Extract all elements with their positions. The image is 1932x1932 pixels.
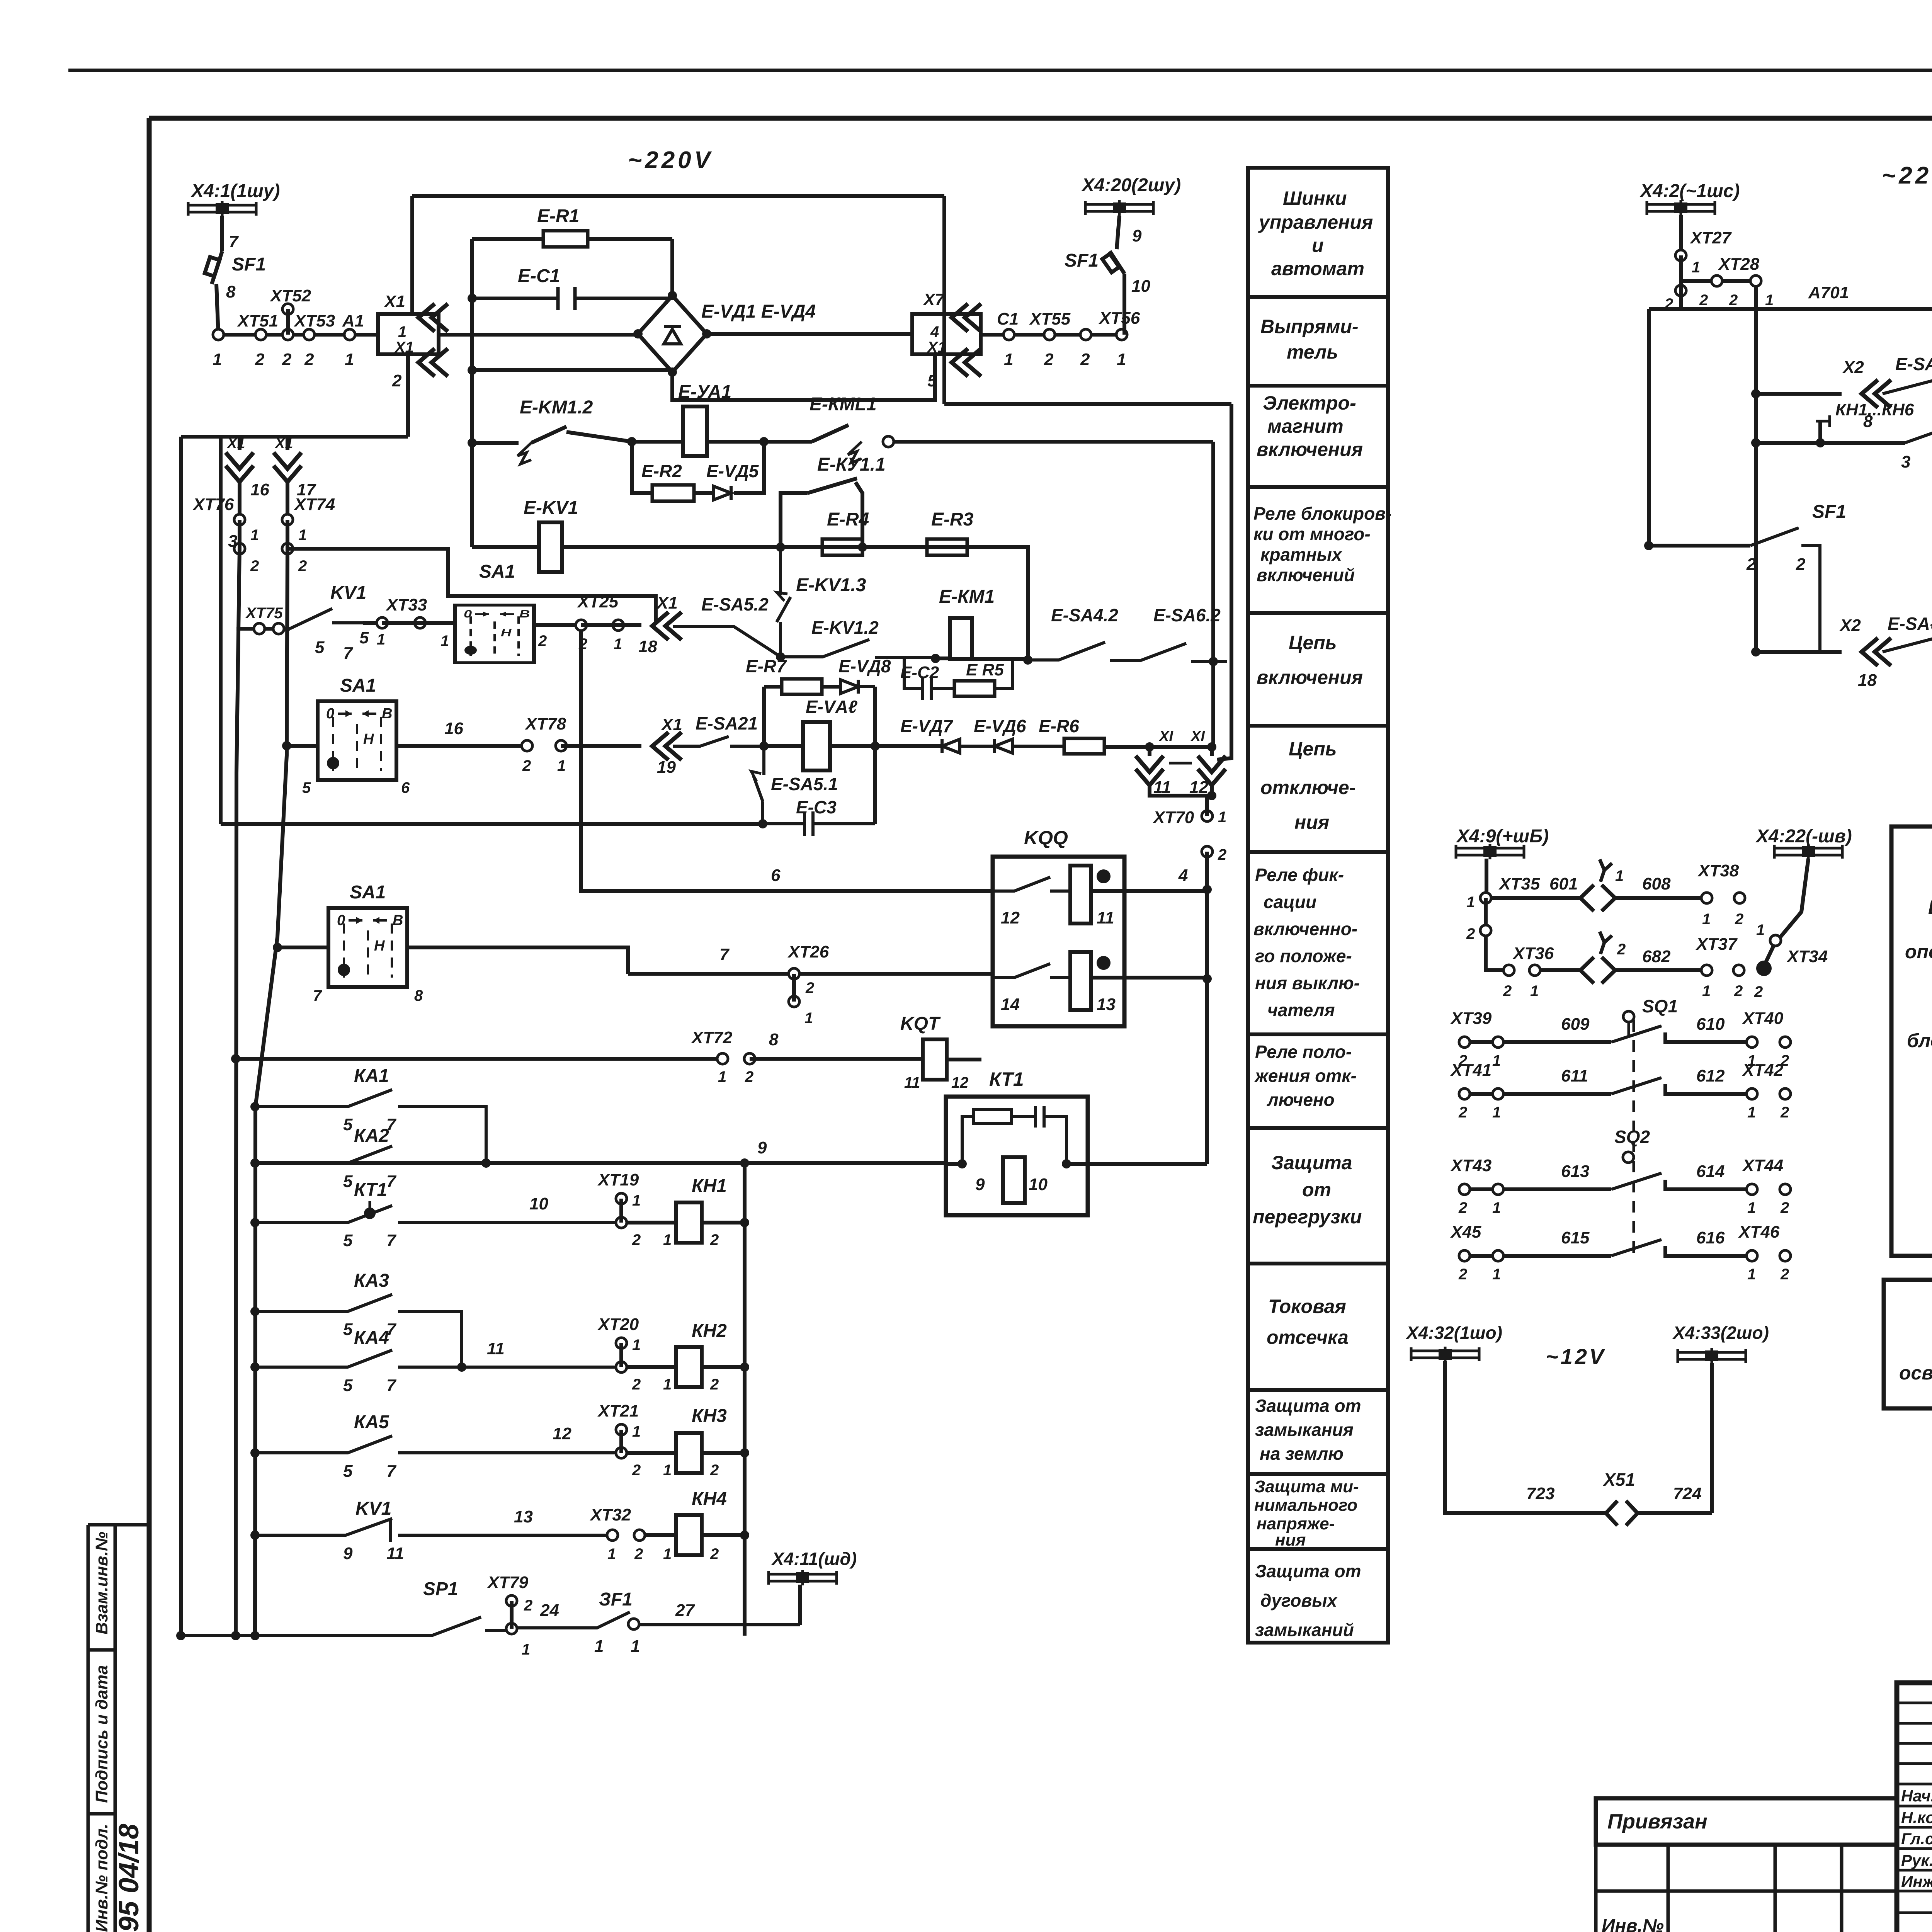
svg-text:ХТ75: ХТ75 <box>245 605 283 622</box>
SQ linkage dashed <box>1633 1020 1635 1256</box>
wire 682 <box>1615 968 1701 972</box>
svg-text:перегрузки: перегрузки <box>1253 1206 1362 1228</box>
svg-text:ЗF1: ЗF1 <box>599 1589 633 1610</box>
svg-text:4: 4 <box>1178 866 1188 885</box>
svg-text:E-КУ1.1: E-КУ1.1 <box>817 454 886 475</box>
svg-text:609: 609 <box>1561 1015 1590 1034</box>
terminal XT72 <box>717 1053 728 1064</box>
svg-text:~220 V: ~220 V <box>1882 162 1932 189</box>
terminal XT51 <box>213 329 224 340</box>
svg-text:А1: А1 <box>342 311 364 330</box>
terminal XT56 <box>1116 329 1127 340</box>
svg-text:612: 612 <box>1696 1066 1725 1085</box>
svg-text:Шинки: Шинки <box>1283 187 1347 209</box>
relay coil KQT <box>923 1039 947 1080</box>
relay coil KH2 <box>626 1365 745 1369</box>
wire SA1-2 to XT78 <box>396 744 527 748</box>
relay coil KH3 <box>626 1451 745 1455</box>
svg-text:Реле поло-: Реле поло- <box>1255 1042 1352 1062</box>
svg-text:7: 7 <box>386 1462 397 1481</box>
svg-text:ния выклю-: ния выклю- <box>1255 973 1360 993</box>
left margin column boxes <box>88 1525 150 1932</box>
wire XT74 feed to chevron18 <box>287 549 656 622</box>
svg-text:SF1: SF1 <box>1812 502 1846 522</box>
wire 6 vertical from XT25 <box>581 631 993 891</box>
connector X1 chevron out <box>418 349 448 376</box>
svg-text:ХТ51: ХТ51 <box>236 311 278 330</box>
svg-text:ХТ52: ХТ52 <box>269 286 311 305</box>
wire 12V loop <box>1445 1361 1712 1513</box>
svg-text:SA1: SA1 <box>350 882 386 903</box>
svg-text:610: 610 <box>1696 1015 1725 1034</box>
svg-text:E-УА1: E-УА1 <box>678 382 731 402</box>
terminal XT34 <box>1770 935 1781 946</box>
svg-text:E-C3: E-C3 <box>796 797 837 817</box>
svg-text:отключе-: отключе- <box>1260 777 1355 798</box>
svg-text:12: 12 <box>951 1074 969 1091</box>
svg-text:1: 1 <box>594 1637 604 1656</box>
svg-text:10: 10 <box>1029 1175 1048 1194</box>
svg-text:7: 7 <box>719 945 730 964</box>
terminal XT37 <box>1701 965 1712 976</box>
wire XT56 up to SF1 <box>1122 274 1126 335</box>
svg-text:отсечка: отсечка <box>1267 1327 1349 1348</box>
svg-text:Инв.№ подл.: Инв.№ подл. <box>92 1824 111 1932</box>
row XT43 613 SQ2 614 XT44 <box>1464 1180 1747 1189</box>
resistor E-R1 <box>543 231 588 247</box>
breaker SF1 second <box>1110 251 1124 274</box>
svg-text:E-R3: E-R3 <box>931 509 974 530</box>
wire to X4:11 <box>798 1585 802 1625</box>
resistor E-R3 <box>927 539 967 555</box>
svg-text:1: 1 <box>1765 292 1774 309</box>
contact KA1 <box>250 1102 260 1111</box>
svg-text:КА4: КА4 <box>354 1328 389 1348</box>
svg-text:от: от <box>1302 1179 1331 1201</box>
svg-text:КН2: КН2 <box>692 1321 727 1341</box>
diode E-VД8 <box>840 680 875 694</box>
svg-text:ХТ20: ХТ20 <box>597 1315 639 1334</box>
relay coil KH4 <box>645 1533 745 1537</box>
wire row1 right junction <box>1209 657 1218 666</box>
contact KA2 <box>250 1158 260 1168</box>
svg-text:7: 7 <box>386 1376 397 1395</box>
svg-text:А701: А701 <box>1808 283 1849 302</box>
wire X1 box bottom drop <box>181 354 408 437</box>
svg-text:замыканий: замыканий <box>1255 1620 1354 1640</box>
wire XT26 row <box>628 972 993 976</box>
svg-text:Защита от: Защита от <box>1255 1396 1361 1416</box>
contact KH1-KH6 <box>1905 425 1932 443</box>
svg-text:ХТ79: ХТ79 <box>486 1573 529 1592</box>
row XT39 609 SQ1 610 XT40 <box>1464 1032 1747 1042</box>
svg-text:2: 2 <box>1617 941 1626 958</box>
svg-text:2: 2 <box>524 1597 532 1614</box>
resistor E-R2 <box>652 485 694 501</box>
bypass loop E-KY1.1 <box>781 482 862 547</box>
terminal bar X4:33 <box>1678 1348 1746 1364</box>
connector chevron X2 left <box>1862 380 1891 408</box>
svg-text:Привязан: Привязан <box>1607 1810 1708 1833</box>
svg-text:E-VД1 E-VД4: E-VД1 E-VД4 <box>701 301 816 322</box>
svg-text:Х1: Х1 <box>394 339 414 356</box>
svg-text:E-КМ1: E-КМ1 <box>939 587 995 607</box>
svg-text:Реле блокиров-: Реле блокиров- <box>1253 503 1391 524</box>
svg-text:E-SA4.2: E-SA4.2 <box>1051 605 1118 625</box>
svg-text:замыкания: замыкания <box>1255 1420 1354 1440</box>
svg-text:1: 1 <box>1756 922 1765 939</box>
svg-text:2: 2 <box>632 1376 641 1393</box>
svg-text:управления: управления <box>1258 211 1373 233</box>
svg-text:X4:11(шд): X4:11(шд) <box>771 1549 857 1569</box>
svg-text:сации: сации <box>1264 892 1316 912</box>
svg-text:1: 1 <box>377 631 385 648</box>
svg-text:Инж: Инж <box>1901 1872 1932 1891</box>
svg-text:16: 16 <box>444 719 463 738</box>
wire XT27 to rail <box>1649 291 1681 546</box>
svg-text:1: 1 <box>1747 1199 1756 1216</box>
svg-text:9: 9 <box>975 1175 985 1194</box>
wire left long vertical <box>179 437 183 1636</box>
svg-text:включения: включения <box>1257 667 1363 688</box>
svg-text:3: 3 <box>1901 452 1910 471</box>
svg-text:автомат: автомат <box>1271 258 1364 279</box>
svg-text:1: 1 <box>522 1641 530 1658</box>
wire R6 to chevron pair <box>1104 745 1212 749</box>
svg-text:12: 12 <box>553 1424 571 1443</box>
svg-text:1: 1 <box>1615 867 1624 884</box>
svg-text:1: 1 <box>804 1010 813 1027</box>
svg-text:615: 615 <box>1561 1228 1590 1247</box>
wire SA1 to XT25 <box>534 623 581 627</box>
svg-text:Нач.отд.: Нач.отд. <box>1901 1787 1932 1805</box>
left attachment box Привязан <box>1596 1798 1897 1845</box>
svg-text:2: 2 <box>1458 1199 1467 1216</box>
wire right bus of ladder <box>743 1163 747 1636</box>
wire vertical to KV1 row <box>472 545 539 549</box>
svg-text:2: 2 <box>255 350 265 369</box>
connector X1 chevron in <box>418 304 448 332</box>
svg-text:27: 27 <box>675 1601 695 1620</box>
svg-text:1: 1 <box>345 350 354 369</box>
svg-text:1: 1 <box>631 1637 640 1656</box>
connector X1 upper box <box>378 314 439 354</box>
svg-text:9: 9 <box>1132 226 1142 245</box>
svg-text:жения отк-: жения отк- <box>1254 1066 1357 1086</box>
svg-text:18: 18 <box>1858 671 1877 690</box>
svg-text:E-KV1: E-KV1 <box>524 498 578 518</box>
svg-text:1: 1 <box>1492 1104 1501 1121</box>
svg-text:2: 2 <box>745 1068 753 1085</box>
wire to coil <box>632 440 683 444</box>
svg-text:1: 1 <box>1692 259 1700 276</box>
contact open terminal <box>883 436 894 447</box>
capacitor E-C1 <box>472 287 672 310</box>
svg-text:E-VД6: E-VД6 <box>974 716 1026 736</box>
parallel branch R2 VD5 <box>632 442 764 493</box>
svg-text:18: 18 <box>638 637 657 656</box>
connector Y2 <box>1580 957 1615 983</box>
svg-text:нимального: нимального <box>1254 1496 1357 1515</box>
svg-text:E-VАℓ: E-VАℓ <box>806 697 857 717</box>
svg-text:8: 8 <box>226 282 236 301</box>
svg-text:7: 7 <box>386 1231 397 1250</box>
svg-text:ХТ27: ХТ27 <box>1689 228 1732 247</box>
wire to KML1 <box>764 440 812 444</box>
KQQ contact 14 <box>993 964 1070 978</box>
svg-text:5: 5 <box>343 1115 353 1134</box>
svg-text:5: 5 <box>343 1172 353 1191</box>
svg-text:X4:32(1шо): X4:32(1шо) <box>1405 1323 1502 1343</box>
snubber loop left vertical <box>762 687 766 746</box>
svg-text:Х1: Х1 <box>383 292 405 311</box>
svg-text:магнит: магнит <box>1267 415 1344 437</box>
svg-text:ХТ46: ХТ46 <box>1738 1223 1780 1242</box>
svg-text:E R5: E R5 <box>966 660 1004 679</box>
wire XT72 KQT row <box>236 1057 723 1061</box>
wire A701 row <box>1649 307 1932 311</box>
KT1 coil <box>1003 1157 1025 1203</box>
diode E-VД6 <box>995 739 1064 753</box>
svg-text:КА2: КА2 <box>354 1126 389 1146</box>
contact KV1 <box>290 609 363 629</box>
KQQ coil 13 <box>1070 952 1091 1010</box>
svg-text:E-R2: E-R2 <box>641 461 682 481</box>
svg-text:SР1: SР1 <box>423 1579 458 1599</box>
wire rail to KML row <box>944 404 1231 760</box>
svg-text:ХТ28: ХТ28 <box>1718 255 1760 274</box>
svg-text:1: 1 <box>1218 809 1226 826</box>
svg-text:13: 13 <box>514 1507 533 1526</box>
svg-text:С1: С1 <box>997 310 1019 328</box>
contact SP1 <box>176 1631 185 1640</box>
svg-text:Цепь: Цепь <box>1289 738 1337 760</box>
svg-text:ХТ21: ХТ21 <box>597 1401 639 1420</box>
svg-text:ния: ния <box>1275 1531 1306 1549</box>
svg-text:611: 611 <box>1561 1066 1588 1085</box>
wire bridge to connector <box>707 332 912 336</box>
svg-text:613: 613 <box>1561 1162 1589 1181</box>
resistor E-R6 <box>1064 738 1104 754</box>
svg-text:11: 11 <box>904 1074 920 1091</box>
wire to XT33 <box>363 621 382 625</box>
svg-text:KV1: KV1 <box>330 583 366 603</box>
wire SA1-3 exit <box>407 947 628 974</box>
svg-text:1: 1 <box>1702 983 1711 1000</box>
svg-text:2: 2 <box>632 1231 641 1248</box>
svg-text:ХТ37: ХТ37 <box>1695 935 1738 954</box>
junction <box>627 437 636 446</box>
svg-text:1: 1 <box>250 527 259 544</box>
svg-text:95 04/18: 95 04/18 <box>114 1824 145 1932</box>
svg-text:ХI: ХI <box>1158 728 1173 745</box>
wire E-SA3.1 row <box>1751 389 1760 398</box>
svg-text:14: 14 <box>1001 995 1020 1014</box>
svg-text:Х7: Х7 <box>922 290 945 309</box>
svg-text:4: 4 <box>930 323 939 340</box>
svg-text:1: 1 <box>1466 894 1475 911</box>
svg-text:X4:1(1шу): X4:1(1шу) <box>190 181 280 201</box>
terminal XT53 <box>304 329 315 340</box>
svg-text:KQТ: KQТ <box>900 1014 941 1034</box>
svg-text:1: 1 <box>1747 1104 1756 1121</box>
wire E-SA2.2 row <box>1751 647 1760 656</box>
svg-text:ХТ78: ХТ78 <box>524 714 566 733</box>
contact KA3 <box>250 1307 260 1316</box>
wire R3 down to row1 <box>967 547 1028 662</box>
svg-text:2: 2 <box>1466 925 1475 942</box>
svg-text:тель: тель <box>1287 341 1338 363</box>
snubber loop right vertical <box>873 687 877 824</box>
wire SF1 to row <box>216 284 218 335</box>
contact E-SA5.2 <box>673 627 781 657</box>
wire KM1.2 row left vertical <box>472 441 519 445</box>
contact E-SA2.2 <box>1883 633 1932 652</box>
terminal XT79 <box>506 1595 517 1606</box>
svg-text:E-R7: E-R7 <box>746 656 787 676</box>
svg-text:1: 1 <box>663 1462 672 1479</box>
svg-text:8: 8 <box>414 987 423 1004</box>
terminal bar X4:32 <box>1411 1347 1479 1362</box>
svg-text:Электро-: Электро- <box>1263 392 1356 414</box>
svg-text:2: 2 <box>1780 1266 1789 1283</box>
svg-text:1: 1 <box>298 527 307 544</box>
svg-text:11: 11 <box>386 1544 404 1563</box>
terminal XT26 <box>789 968 799 979</box>
contact E-KV1.2 <box>781 639 935 658</box>
wire left rail L1 <box>236 549 240 1636</box>
contact E-SA2.1 <box>673 736 764 746</box>
svg-text:на землю: на землю <box>1260 1444 1344 1464</box>
wire X4:9 stem <box>1485 859 1488 898</box>
svg-text:Инв.№: Инв.№ <box>1602 1916 1664 1932</box>
left attachment table <box>1596 1845 1897 1932</box>
resistor E-R4 <box>822 539 862 555</box>
wire XT78 to chevron19 <box>561 744 641 748</box>
svg-text:E-VД7: E-VД7 <box>900 716 954 736</box>
terminal C1 <box>1003 329 1014 340</box>
terminal XT28 <box>1711 276 1722 286</box>
svg-text:1: 1 <box>1492 1199 1501 1216</box>
svg-text:Защита: Защита <box>1271 1152 1352 1173</box>
terminal XT36 <box>1503 965 1514 976</box>
relay coil E-VA2 <box>803 722 830 770</box>
wire right rail lower <box>1205 796 1209 1164</box>
svg-text:6: 6 <box>771 866 781 885</box>
wire left rail L2 <box>255 549 287 1636</box>
wire SF1 mid row <box>1644 541 1653 550</box>
svg-text:6: 6 <box>401 779 410 796</box>
svg-text:го положе-: го положе- <box>1255 946 1352 966</box>
svg-text:2: 2 <box>710 1462 719 1479</box>
svg-text:2: 2 <box>522 757 531 774</box>
svg-text:7: 7 <box>386 1172 397 1191</box>
svg-text:2: 2 <box>1218 846 1226 863</box>
wire KML to right rail <box>894 442 1213 747</box>
svg-text:КТ1: КТ1 <box>354 1180 387 1200</box>
relay coil KH1 <box>626 1221 745 1225</box>
svg-text:2: 2 <box>1780 1104 1789 1121</box>
svg-text:ХТ36: ХТ36 <box>1512 944 1554 963</box>
svg-text:Защита ми-: Защита ми- <box>1254 1477 1359 1496</box>
svg-text:2: 2 <box>304 350 314 369</box>
svg-text:E-SA21: E-SA21 <box>696 713 758 733</box>
svg-text:ки от много-: ки от много- <box>1253 524 1371 544</box>
wire KQQ out to rail <box>1091 976 1207 980</box>
svg-text:5: 5 <box>343 1376 353 1395</box>
svg-text:616: 616 <box>1696 1228 1725 1247</box>
svg-text:SF1: SF1 <box>232 254 266 275</box>
contact E-SA3.1 <box>1883 375 1932 394</box>
svg-text:10: 10 <box>529 1194 548 1213</box>
svg-text:682: 682 <box>1642 947 1671 966</box>
svg-text:Реле фик-: Реле фик- <box>1255 865 1344 885</box>
terminal bar X4:22 <box>1774 844 1842 859</box>
svg-text:Х1: Х1 <box>927 339 946 356</box>
svg-text:9: 9 <box>757 1138 767 1157</box>
sheet outer top border <box>68 69 1932 72</box>
svg-text:КН1: КН1 <box>692 1176 727 1196</box>
contact ЗF1 <box>517 1612 800 1628</box>
svg-text:КН4: КН4 <box>692 1489 727 1509</box>
svg-text:601: 601 <box>1549 874 1578 893</box>
svg-text:Рук.гр.: Рук.гр. <box>1901 1851 1932 1869</box>
svg-text:2: 2 <box>710 1546 719 1563</box>
diode E-VД7 <box>942 739 995 753</box>
svg-text:1: 1 <box>1004 350 1013 369</box>
contact E-SA4.2 <box>1028 642 1140 661</box>
contact E-SA5.1 <box>753 746 764 824</box>
svg-text:ХТ33: ХТ33 <box>385 595 427 614</box>
svg-text:включения: включения <box>1257 439 1363 460</box>
connector X1 right box <box>912 314 981 354</box>
svg-text:E-SА3.1: E-SА3.1 <box>1895 354 1932 374</box>
svg-text:E-C2: E-C2 <box>900 663 939 682</box>
svg-text:ХТ42: ХТ42 <box>1742 1061 1784 1080</box>
svg-text:1: 1 <box>663 1376 672 1393</box>
wire XT28 row <box>1681 281 1756 652</box>
relay box KQQ <box>993 857 1124 1026</box>
svg-text:1: 1 <box>213 350 222 369</box>
connector X51 <box>1606 1501 1638 1526</box>
bracket KH1...KH6 <box>1816 415 1932 427</box>
wire terminal row <box>218 333 378 337</box>
wire connector to XT56 <box>981 333 1124 337</box>
svg-text:E-R1: E-R1 <box>537 206 579 226</box>
svg-text:оператив-: оператив- <box>1905 941 1932 963</box>
connector chevron X1 19 <box>652 732 682 760</box>
svg-text:Н.контр: Н.контр <box>1901 1808 1932 1827</box>
svg-text:ХТ40: ХТ40 <box>1742 1009 1784 1028</box>
svg-text:Х2: Х2 <box>1839 616 1861 635</box>
svg-text:E-SA5.1: E-SA5.1 <box>771 774 838 794</box>
wire KV1 row <box>562 545 1028 549</box>
svg-text:10: 10 <box>1131 277 1150 296</box>
svg-text:608: 608 <box>1642 874 1671 893</box>
svg-text:Х2: Х2 <box>1842 358 1864 377</box>
svg-text:1: 1 <box>607 1546 616 1563</box>
svg-text:1: 1 <box>1117 350 1126 369</box>
contact E-KM1.2 <box>517 443 531 464</box>
svg-text:2: 2 <box>392 371 402 390</box>
svg-text:ХТ53: ХТ53 <box>293 311 335 330</box>
svg-text:блокиров-: блокиров- <box>1907 1030 1932 1051</box>
svg-text:Х1: Х1 <box>656 594 678 612</box>
terminal XT21 <box>616 1424 627 1435</box>
svg-text:E-KV1.2: E-KV1.2 <box>811 617 879 638</box>
svg-text:2: 2 <box>1458 1266 1467 1283</box>
svg-text:1: 1 <box>663 1546 672 1563</box>
